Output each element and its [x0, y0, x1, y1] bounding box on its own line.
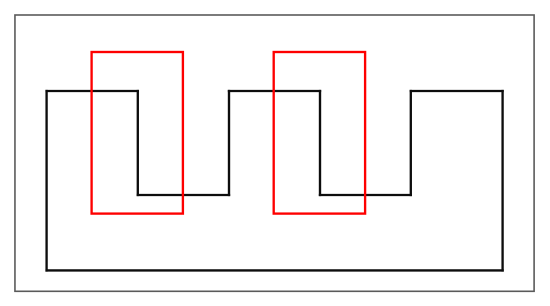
wire: top segment 1	[47, 90, 138, 92]
wire: bottom	[47, 269, 503, 271]
wire: top segment 2	[229, 90, 320, 92]
red rectangle 2	[274, 52, 365, 214]
wire: right side	[501, 91, 503, 270]
wire: notch 1 right	[228, 91, 230, 195]
wire: notch 1 left	[137, 91, 139, 195]
wire: top segment 3	[411, 90, 503, 92]
red rectangle 1	[92, 52, 183, 214]
wire: notch 1 bottom	[138, 194, 229, 196]
wire: left side	[45, 91, 47, 270]
wire: notch 2 left	[319, 91, 321, 195]
wire: notch 2 bottom	[320, 194, 411, 196]
wire: notch 2 right	[410, 91, 412, 195]
black meander outline	[47, 91, 503, 270]
